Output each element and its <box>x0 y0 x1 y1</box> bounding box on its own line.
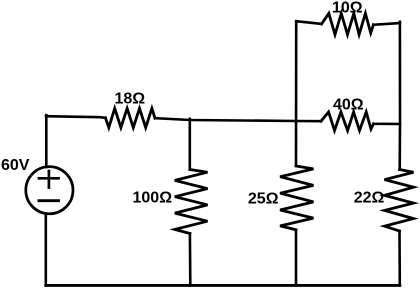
resistor 18Ω (horizontal zigzag) <box>105 108 155 127</box>
wire: 25Ω bottom lead (to bottom rail) <box>295 230 298 286</box>
resistor 10Ω (horizontal zigzag, top parallel branch) <box>322 13 374 34</box>
wire: 40Ω right lead (zigzag to node C at right vertical) <box>374 123 401 126</box>
svg-text:10Ω: 10Ω <box>332 0 363 17</box>
wire: main horizontal segment (R 18Ω right lead to node B at x=296) <box>155 118 296 121</box>
wire: top parallel branch right segment (10Ω right lead to top-right corner) <box>373 23 400 25</box>
svg-text:18Ω: 18Ω <box>115 90 146 107</box>
wire: 40Ω left lead (node B to zigzag) <box>296 120 321 123</box>
svg-text:60V: 60V <box>1 157 30 174</box>
wire: left vertical segment below source (− terminal to bottom rail) <box>44 214 47 286</box>
wire: top-left horizontal segment (source node to R 18Ω left lead) <box>46 116 105 118</box>
voltage source V1 plus sign <box>39 171 59 188</box>
resistor 25Ω (vertical zigzag) <box>280 166 313 230</box>
svg-text:22Ω: 22Ω <box>354 189 385 206</box>
wire: 100Ω bottom lead (to bottom rail) <box>189 234 192 286</box>
wire: 22Ω bottom lead (to bottom rail) <box>398 231 401 285</box>
resistor 40Ω (horizontal zigzag on main line) <box>321 112 374 131</box>
wire: left vertical segment (top corner down to source + terminal) <box>45 115 48 167</box>
svg-text:25Ω: 25Ω <box>248 191 279 208</box>
wire: top parallel branch left segment (corner to 10Ω left lead) <box>296 21 321 24</box>
svg-text:100Ω: 100Ω <box>133 190 173 207</box>
wire: 100Ω top lead (main wire junction down) <box>189 119 192 170</box>
wire: bottom rail (ground return, left corner to right corner) <box>46 284 400 287</box>
resistor 22Ω (vertical zigzag) <box>385 170 414 232</box>
node C: right vertical wire x=400 (top-right corner through 40Ω junction to 22Ω top lead) <box>398 22 401 170</box>
resistor 100Ω (vertical zigzag) <box>175 170 208 234</box>
voltage source V1 circle <box>26 167 73 214</box>
node B: junction vertical wire x=296 (from top parallel corner through main wire to 25Ω) <box>295 21 298 166</box>
svg-text:40Ω: 40Ω <box>333 96 364 113</box>
voltage source V1 minus sign <box>39 199 59 202</box>
